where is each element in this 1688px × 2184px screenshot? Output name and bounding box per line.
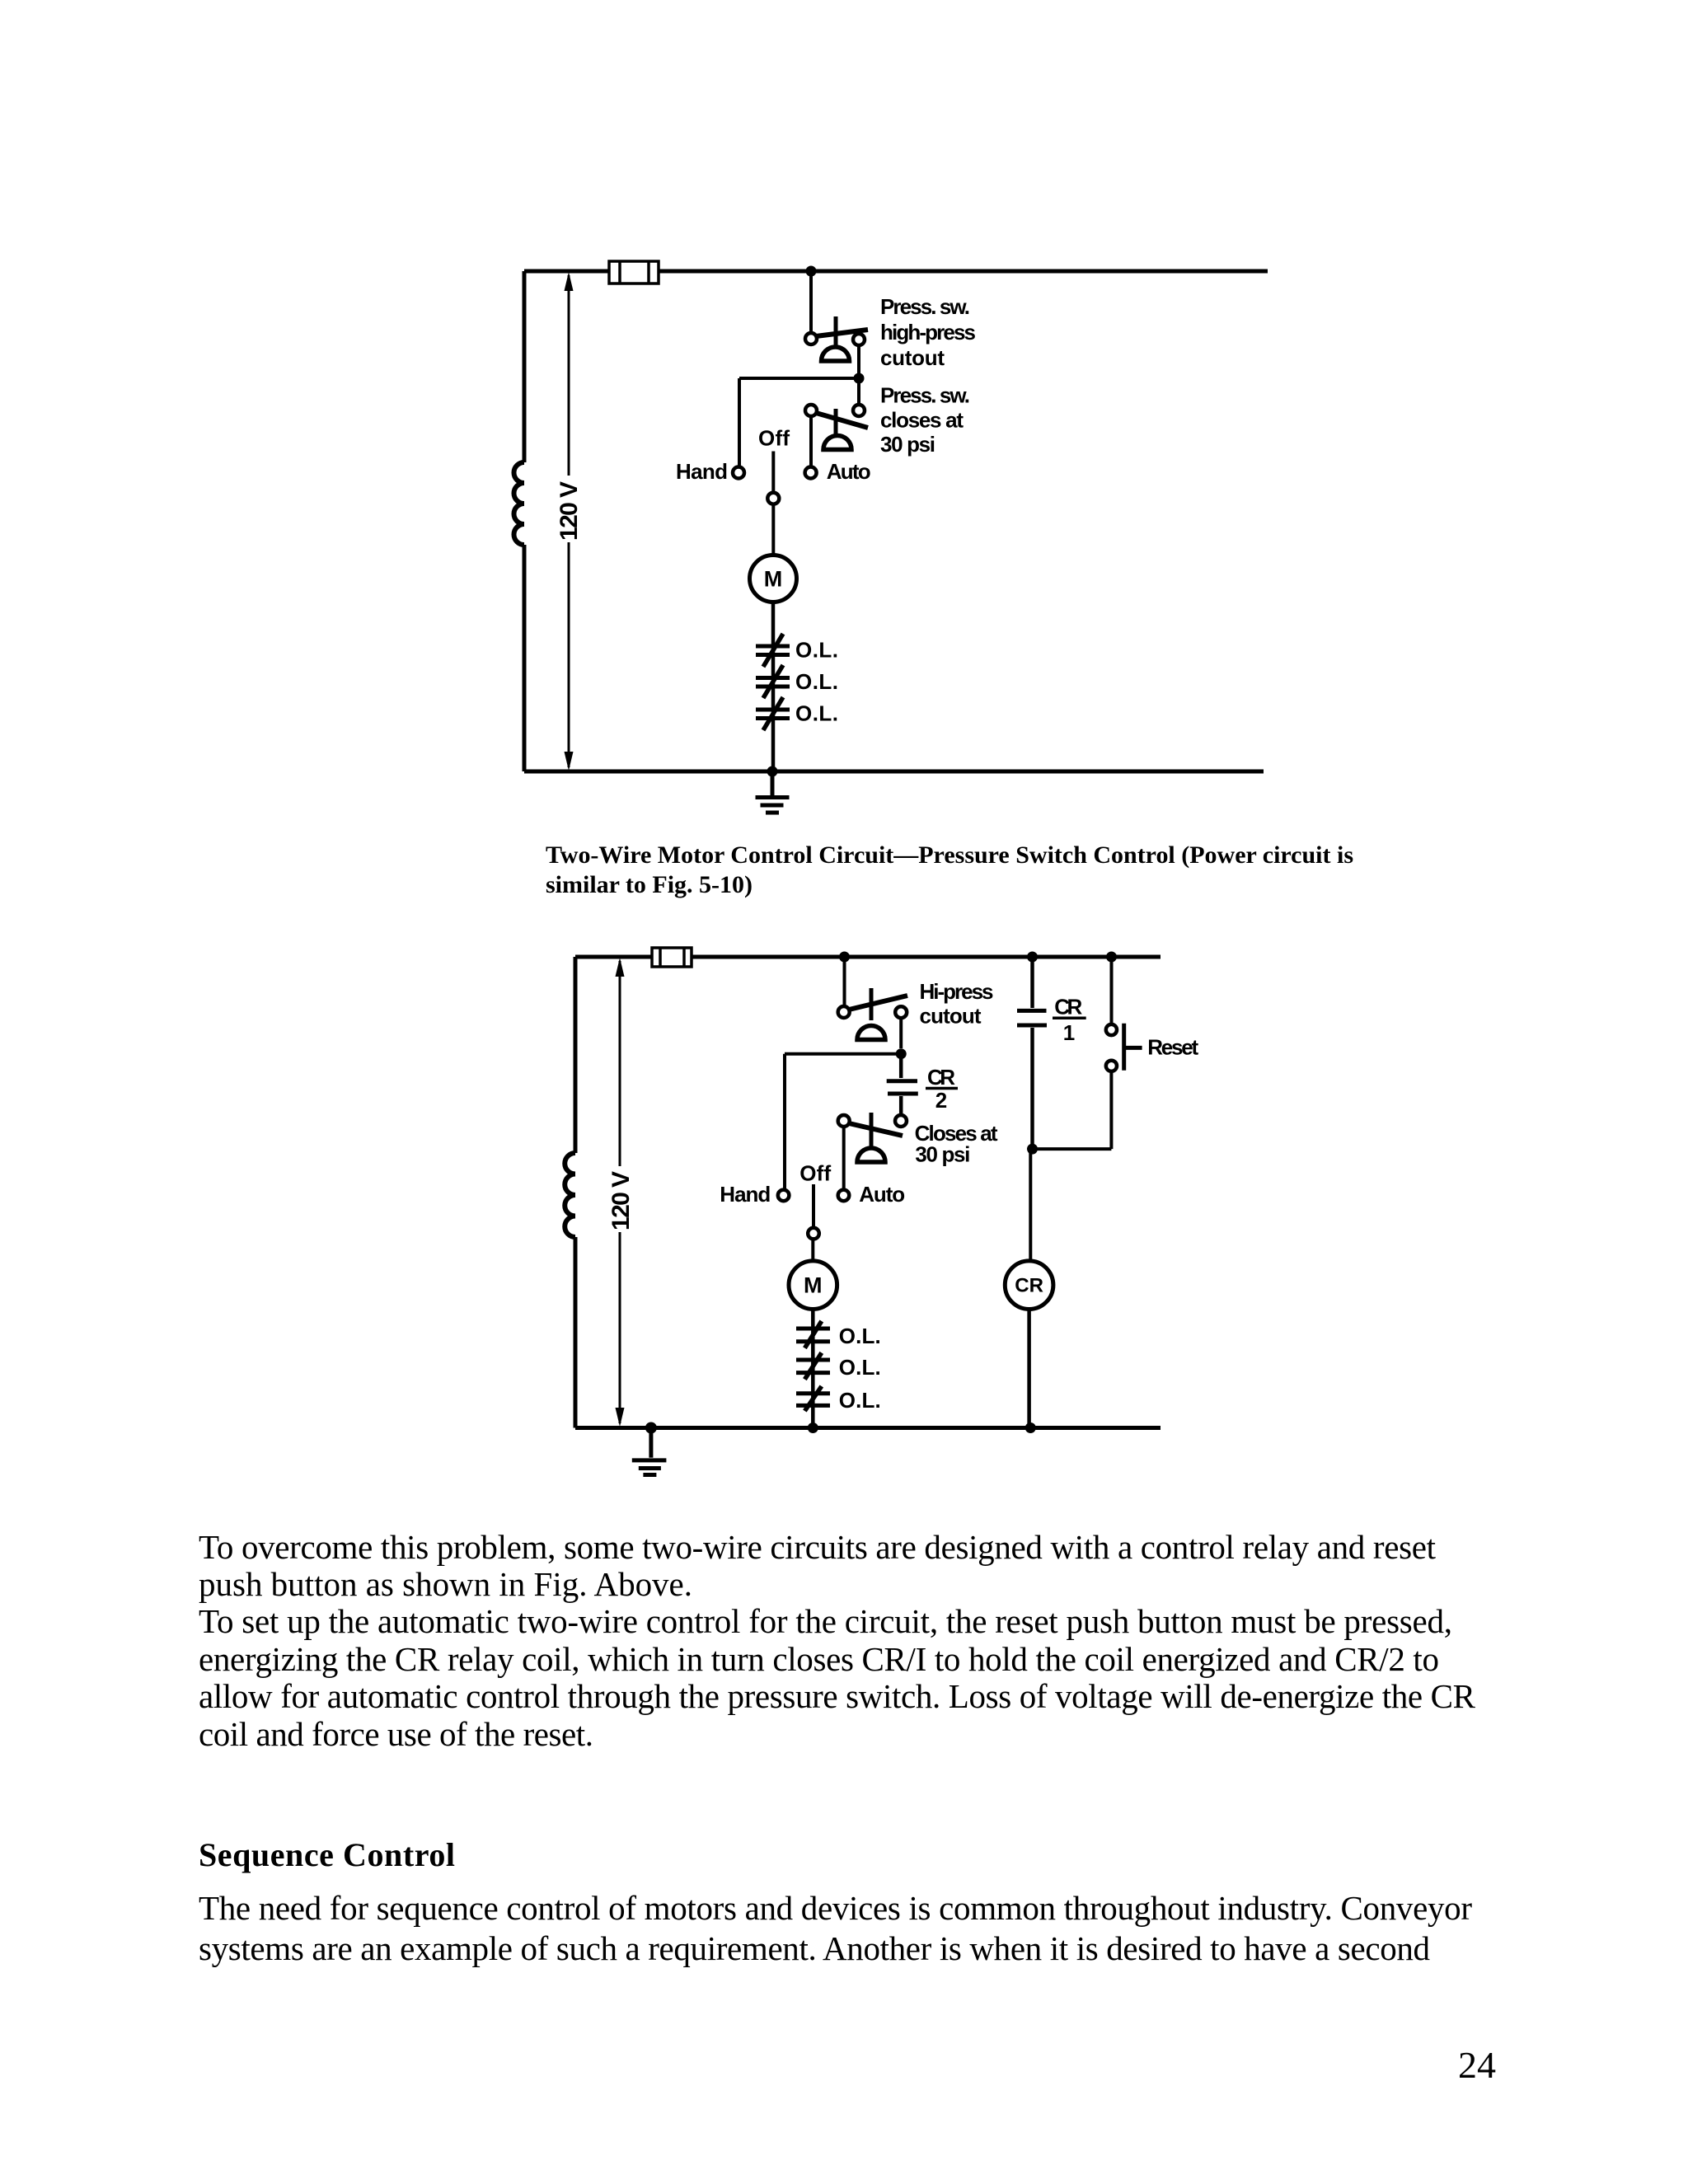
wire [809,271,813,333]
svg-text:M: M [764,567,783,592]
wire [857,345,860,373]
svg-text:O.L.: O.L. [795,669,838,694]
ground symbol [632,1428,667,1475]
overload contact O.L. 2 [796,1352,830,1379]
paragraph 1 [199,1528,1476,1753]
junction: PS1 out / Hand branch [854,373,865,384]
wire: left rail upper segment [523,271,527,462]
wire [1033,1147,1112,1151]
svg-text:O.L.: O.L. [795,701,838,726]
wire [739,377,859,380]
svg-text:Press. sw.: Press. sw. [880,383,970,408]
svg-text:similar to Fig. 5-10): similar to Fig. 5-10) [546,871,753,898]
wire [1110,957,1114,1024]
label: Hi-press cutout [920,979,994,1029]
junction: bottom rail / ground [767,766,778,777]
junction: CR1 / Reset tie point [1027,1144,1038,1155]
junction: bottom rail / ground [645,1422,657,1434]
svg-text:Hi-press: Hi-press [920,979,994,1004]
pressure switch PS1: high-press cutout (NC) [805,316,868,361]
svg-text:24: 24 [1458,2044,1496,2086]
wire: left rail lower segment [523,545,527,771]
wire [811,1239,814,1261]
svg-text:Auto: Auto [827,459,871,484]
junction: top rail / pressure-switch branch [806,266,817,277]
svg-text:high-press: high-press [880,320,976,344]
inductor: 120 V source winding [565,1153,575,1237]
pressure switch PS2: closes at 30 psi (NO) [805,405,868,450]
terminal: Hand contact [733,467,744,479]
terminal: Off pole contact [767,493,779,504]
svg-text:Sequence Control: Sequence Control [199,1836,455,1873]
wire: top rail L1 [524,269,1268,274]
svg-text:O.L.: O.L. [839,1324,881,1348]
relay contact CR/1 (NO, holding) [1017,957,1047,1149]
overload contact O.L. 1 [796,1321,830,1348]
terminal: Auto contact [805,467,817,479]
svg-text:coil and force use of the rese: coil and force use of the reset. [199,1715,593,1753]
svg-text:Hand: Hand [676,459,728,484]
svg-text:cutout: cutout [920,1003,982,1028]
wire: bottom rail L2 [575,1426,1160,1430]
label: CR/1 [1054,995,1082,1045]
svg-text:push button as shown in Fig. A: push button as shown in Fig. Above. [199,1565,692,1603]
terminal: Hand contact [778,1190,790,1202]
overload contact O.L. 3 [796,1386,830,1411]
fuse F1 [609,261,659,284]
svg-text:Press. sw.: Press. sw. [880,294,970,319]
label: CR/2 [927,1065,955,1113]
svg-text:To set up the automatic two-wi: To set up the automatic two-wire control… [199,1602,1452,1640]
wire: Auto lead [809,416,813,466]
wire: left rail upper segment [574,957,578,1153]
svg-text:closes at: closes at [880,408,964,433]
svg-text:Hand: Hand [720,1182,771,1207]
wire [1109,1071,1113,1149]
pressure switch PS4: closes at 30 psi (NO) [838,1113,907,1162]
junction: PS3 out / Hand branch / CR2 [896,1048,907,1059]
junction: top rail / Reset branch [1106,952,1117,963]
push button: Reset (NO) [1106,1024,1142,1071]
junction: top rail / pressure-switch branch [839,952,850,963]
svg-text:1: 1 [1063,1020,1075,1045]
wire: left rail lower segment [574,1237,578,1428]
terminal: Auto contact [838,1190,850,1202]
wire: Off pole lead [771,452,775,493]
svg-text:The need for sequence control: The need for sequence control of motors … [199,1889,1472,1927]
motor starter coil M [750,555,797,602]
wire [843,957,846,1006]
svg-text:energizing the CR relay coil,: energizing the CR relay coil, which in t… [199,1640,1439,1678]
svg-text:CR: CR [1015,1275,1043,1297]
wire: Hand lead [783,1054,786,1190]
overload contact O.L. 1 [756,634,790,667]
wire [1027,1310,1031,1428]
wire [857,378,860,405]
relay coil CR [1005,1261,1053,1310]
wire [771,602,776,772]
ground symbol [756,771,790,813]
svg-text:O.L.: O.L. [839,1355,881,1380]
wire [785,1052,901,1056]
paragraph 2 [199,1889,1472,1967]
junction: top rail / CR1 branch [1027,952,1038,963]
wire: top rail L1 [575,955,1160,959]
svg-text:Two-Wire Motor Control Circuit: Two-Wire Motor Control Circuit—Pressure … [546,841,1353,869]
wire: Hand lead [738,378,741,466]
overload contact O.L. 3 [756,697,790,730]
svg-text:Off: Off [758,426,790,451]
svg-text:Off: Off [799,1161,831,1186]
terminal: Off pole contact [808,1228,819,1240]
pressure switch PS3: Hi-press cutout (NC) [838,988,907,1040]
svg-text:systems are an example of such: systems are an example of such a require… [199,1929,1430,1967]
label: Closes at 30 psi [915,1121,998,1167]
svg-text:Auto: Auto [859,1182,905,1207]
wire: Auto lead [842,1127,846,1190]
svg-text:CR: CR [927,1065,955,1090]
wire [811,1310,815,1428]
motor starter coil M [789,1261,837,1310]
svg-text:Reset: Reset [1147,1034,1198,1059]
svg-text:cutout: cutout [880,345,945,370]
svg-text:allow for automatic control th: allow for automatic control through the … [199,1677,1476,1715]
dimension arrow: 120 V [565,272,574,771]
svg-text:M: M [804,1273,823,1298]
svg-text:2: 2 [935,1088,947,1113]
fuse F2 [652,948,692,967]
dimension arrow: 120 V [616,958,625,1427]
svg-text:120 V: 120 V [607,1171,635,1230]
junction: motor branch / bottom rail [808,1422,818,1433]
svg-text:CR: CR [1054,995,1082,1019]
wire [771,504,775,555]
svg-text:30 psi: 30 psi [880,432,935,457]
relay contact CR/2 (NO) [887,1054,918,1115]
junction: CR branch / bottom rail [1025,1422,1036,1433]
wire: bottom rail L2 [524,770,1264,774]
svg-text:120 V: 120 V [556,481,583,541]
wire: Off pole lead [812,1184,815,1228]
label: Press. sw. closes at 30 psi [880,383,970,457]
svg-text:O.L.: O.L. [795,638,838,663]
svg-text:30 psi: 30 psi [915,1142,970,1167]
svg-text:O.L.: O.L. [839,1388,881,1413]
label: Press. sw. high-press cutout [880,294,976,370]
svg-text:To overcome this problem, some: To overcome this problem, some two-wire … [199,1528,1437,1566]
wire [899,1018,903,1048]
inductor: 120 V source winding [513,462,524,545]
wire [1029,1149,1032,1261]
overload contact O.L. 2 [756,665,790,698]
